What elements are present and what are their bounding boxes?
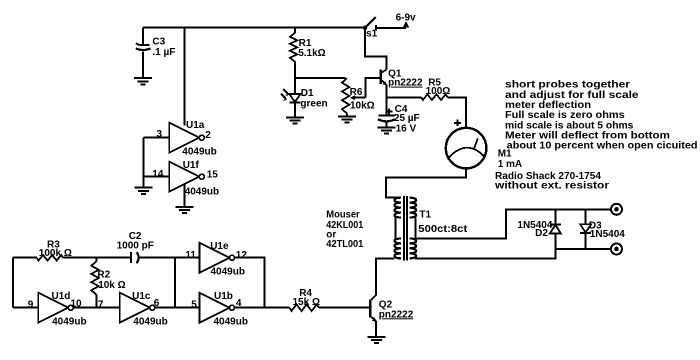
T1 secondary center tap xyxy=(414,218,416,239)
svg-text:1N5404: 1N5404 xyxy=(590,229,625,240)
svg-text:3: 3 xyxy=(157,129,163,140)
svg-text:pn2222: pn2222 xyxy=(379,309,414,320)
wire R6 wiper to Q1 base xyxy=(365,78,380,98)
inverter U1b 4049ub xyxy=(191,291,248,328)
capacitor C2 xyxy=(117,231,154,263)
wire R3 to C2 xyxy=(63,257,131,259)
note block right xyxy=(505,80,698,152)
svg-text:without ext. resistor: without ext. resistor xyxy=(494,181,609,192)
capacitor C3 xyxy=(136,28,176,77)
resistor R4 xyxy=(290,288,320,311)
svg-text:42TL001: 42TL001 xyxy=(326,239,363,250)
ground (C3) xyxy=(134,78,152,84)
ground (C4) xyxy=(377,127,395,133)
T1 part note xyxy=(326,210,363,250)
diode D2 1N5404 xyxy=(517,209,561,249)
T1 primary link xyxy=(394,218,396,239)
svg-text:4049ub: 4049ub xyxy=(185,187,219,198)
wire feedback left vertical xyxy=(12,258,14,308)
svg-text:5: 5 xyxy=(191,300,197,311)
output terminal bottom xyxy=(611,244,622,255)
svg-text:9: 9 xyxy=(28,300,34,311)
capacitor C4 xyxy=(378,97,420,134)
wire U1d input xyxy=(13,307,38,309)
svg-text:.1 µF: .1 µF xyxy=(152,47,175,58)
wire top power rail xyxy=(143,27,365,29)
T1 core xyxy=(404,196,407,261)
svg-text:4049ub: 4049ub xyxy=(214,317,248,328)
svg-text:7: 7 xyxy=(98,300,104,311)
resistor R5 xyxy=(386,77,466,128)
wire C2 node to U1c output node xyxy=(174,258,176,308)
svg-text:R6: R6 xyxy=(350,87,363,98)
svg-text:U1a: U1a xyxy=(186,120,205,131)
svg-text:T1: T1 xyxy=(419,210,431,221)
wire U1c output to U1b input xyxy=(155,307,200,309)
svg-text:R2: R2 xyxy=(97,269,110,280)
ground (Q2) xyxy=(367,337,385,343)
inverter U1d 4049ub xyxy=(28,291,87,328)
svg-text:12: 12 xyxy=(236,250,248,261)
svg-text:10kΩ: 10kΩ xyxy=(350,100,375,111)
T1 primary bottom winding xyxy=(394,238,401,258)
T1 secondary bottom winding xyxy=(410,238,417,258)
T1 secondary top winding xyxy=(410,198,417,218)
svg-text:U1f: U1f xyxy=(183,160,200,171)
wire U1e output drop xyxy=(235,258,265,308)
wire T1 primary bottom to Q2 collector xyxy=(376,258,395,295)
svg-text:4049ub: 4049ub xyxy=(52,317,86,328)
svg-text:D1: D1 xyxy=(301,88,314,99)
svg-text:4049ub: 4049ub xyxy=(182,147,216,158)
svg-text:25 µF: 25 µF xyxy=(394,113,420,124)
ground (input tie) xyxy=(134,188,152,194)
svg-text:D2: D2 xyxy=(535,228,548,239)
svg-text:C3: C3 xyxy=(152,37,165,48)
diode D3 1N5404 xyxy=(580,209,625,249)
transistor Q2 pn2222 xyxy=(369,295,414,336)
svg-text:5.1kΩ: 5.1kΩ xyxy=(298,48,325,59)
svg-text:10k Ω: 10k Ω xyxy=(98,280,125,291)
meter M1 xyxy=(446,119,487,168)
svg-text:4049ub: 4049ub xyxy=(133,317,167,328)
wire C2 to U1e input xyxy=(139,257,200,259)
LED D1 xyxy=(281,78,328,117)
wire T1 secondary bottom to output rail xyxy=(415,249,611,258)
switch S1 xyxy=(363,17,410,40)
ground (D1) xyxy=(286,117,304,123)
potentiometer R6 xyxy=(342,78,375,116)
svg-text:green: green xyxy=(300,99,327,110)
resistor R1 xyxy=(290,28,326,78)
svg-text:6-9v: 6-9v xyxy=(396,13,416,24)
ground (U1f) xyxy=(176,207,194,213)
inverter U1e 4049ub xyxy=(185,241,247,278)
svg-text:U1c: U1c xyxy=(132,291,151,302)
svg-text:s1: s1 xyxy=(366,29,378,40)
inverter U1a 4049ub xyxy=(157,120,217,158)
svg-text:2: 2 xyxy=(205,130,211,141)
svg-text:4049ub: 4049ub xyxy=(211,267,245,278)
svg-text:1000 pF: 1000 pF xyxy=(117,240,154,251)
svg-text:11: 11 xyxy=(185,250,196,261)
wire U1d output to U1c input xyxy=(73,307,120,309)
inverter U1c 4049ub xyxy=(98,291,168,327)
svg-text:U1e: U1e xyxy=(210,241,229,252)
svg-text:1 mA: 1 mA xyxy=(498,159,522,170)
wire U1a input tie xyxy=(143,138,169,188)
wire U1f Vss xyxy=(184,184,186,206)
wire top feedback xyxy=(13,257,37,259)
transistor Q1 pn2222 xyxy=(365,28,423,98)
svg-text:15: 15 xyxy=(207,169,219,180)
T1 primary top winding xyxy=(394,198,401,218)
transformer T1 xyxy=(394,196,468,261)
wire node R1/D1/R6 xyxy=(295,77,346,79)
wire U1a supply feed xyxy=(184,28,186,126)
svg-text:U1d: U1d xyxy=(52,291,71,302)
wire R4 to Q2 base xyxy=(319,307,369,309)
svg-text:14: 14 xyxy=(152,169,164,180)
svg-text:U1b: U1b xyxy=(214,291,233,302)
ground (R6) xyxy=(338,117,356,123)
svg-text:500ct:8ct: 500ct:8ct xyxy=(418,224,468,235)
resistor R3 xyxy=(37,239,72,260)
svg-text:pn2222: pn2222 xyxy=(388,78,423,89)
svg-text:15k Ω: 15k Ω xyxy=(293,297,320,308)
meter note xyxy=(494,171,609,192)
wire U1b output to R4 xyxy=(235,307,290,309)
svg-text:16 V: 16 V xyxy=(396,124,417,135)
svg-text:100Ω: 100Ω xyxy=(426,86,451,97)
wire meter to T1 primary top xyxy=(386,168,466,197)
svg-text:about 10 percent when open cic: about 10 percent when open cicuited xyxy=(507,141,698,152)
resistor R2 xyxy=(91,258,125,308)
inverter U1f 4049ub xyxy=(152,160,219,198)
output terminal top xyxy=(611,204,622,215)
wire T1 center tap to output rail xyxy=(415,209,611,238)
meter label M1 xyxy=(498,148,522,170)
svg-text:M1: M1 xyxy=(498,148,512,159)
